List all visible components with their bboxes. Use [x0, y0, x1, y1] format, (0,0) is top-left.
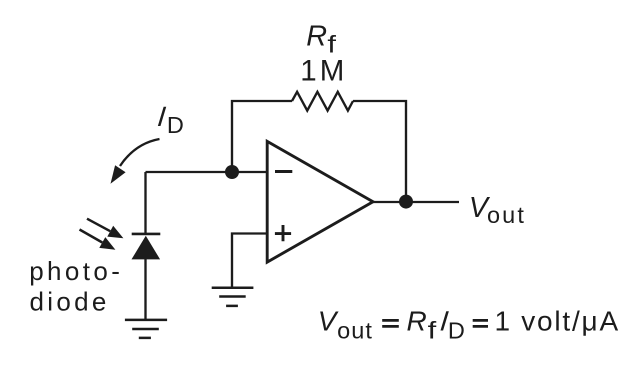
svg-text:R: R — [306, 20, 327, 52]
svg-text:I: I — [156, 101, 167, 132]
ground below photodiode — [125, 320, 167, 338]
label Rf — [306, 20, 336, 58]
light arrow lower — [80, 230, 116, 250]
node junction at inverting input — [225, 165, 239, 179]
photodiode D1 — [132, 234, 161, 320]
op-amp noninverting input marker (plus) — [275, 225, 291, 241]
node junction at output — [399, 195, 413, 209]
ground below op-amp noninverting input — [212, 288, 254, 306]
svg-text:volt/μA: volt/μA — [521, 305, 620, 336]
label ID — [156, 101, 184, 138]
equation Vout = Rf ID = 1 volt/uA — [318, 305, 620, 344]
svg-text:D: D — [167, 112, 184, 138]
svg-text:out: out — [337, 317, 373, 343]
svg-text:1M: 1M — [300, 55, 347, 88]
svg-text:photo-: photo- — [29, 256, 123, 286]
svg-text:V: V — [318, 305, 339, 336]
op-amp inverting input marker (minus) — [275, 170, 292, 173]
current direction curved arrow for ID — [111, 139, 160, 184]
svg-text:R: R — [407, 305, 427, 336]
light arrow upper — [87, 219, 123, 239]
resistor Rf (1M) zigzag — [292, 92, 353, 111]
wire output — [372, 201, 459, 203]
wire photodiode branch top — [144, 172, 146, 234]
label Vout — [469, 192, 526, 228]
wire inverting input — [146, 171, 268, 173]
wire feedback top-right segment and right vertical down to output node — [353, 101, 406, 202]
wire noninverting input — [232, 234, 267, 288]
wire feedback left vertical and top-left segment — [232, 101, 292, 173]
svg-text:f: f — [428, 318, 437, 345]
op-amp U1 triangle — [267, 141, 373, 262]
svg-text:diode: diode — [30, 286, 110, 316]
svg-text:1: 1 — [495, 305, 511, 336]
svg-text:out: out — [487, 202, 526, 228]
label 1M — [300, 55, 347, 88]
label photo-diode — [29, 256, 123, 316]
svg-text:D: D — [448, 317, 465, 343]
